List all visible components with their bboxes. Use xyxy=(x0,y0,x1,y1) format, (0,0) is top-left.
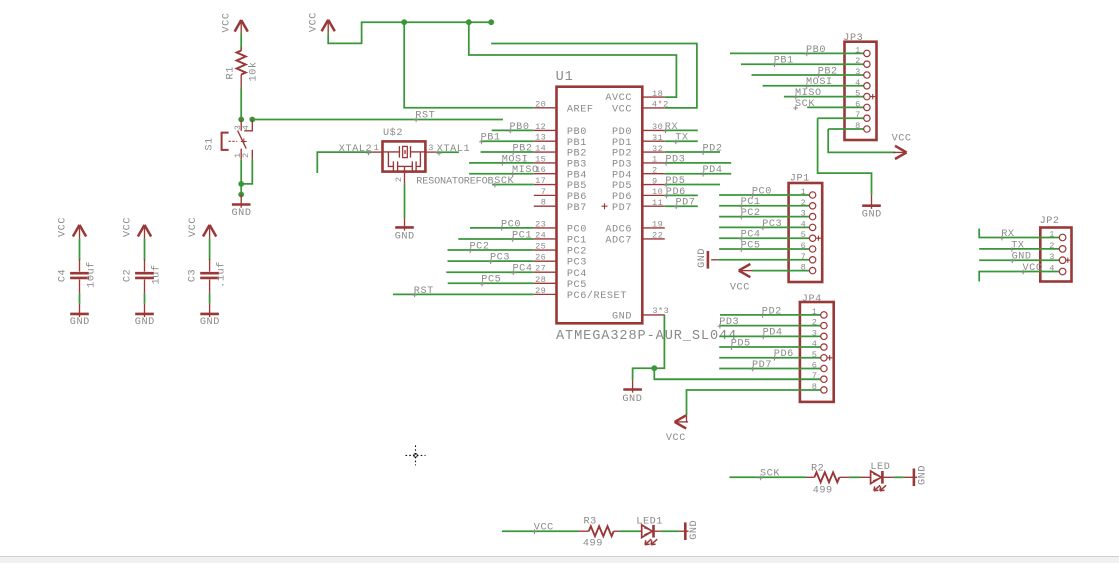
svg-text:GND: GND xyxy=(395,231,415,242)
svg-text:10uf: 10uf xyxy=(85,261,97,288)
svg-text:6: 6 xyxy=(855,99,861,109)
svg-text:8: 8 xyxy=(855,121,861,131)
svg-text:1: 1 xyxy=(855,45,861,55)
svg-text:1: 1 xyxy=(374,143,380,153)
svg-text:3: 3 xyxy=(801,209,807,219)
svg-text:13: 13 xyxy=(535,133,546,143)
svg-text:R2: R2 xyxy=(811,463,824,474)
svg-text:PD3: PD3 xyxy=(612,159,632,170)
svg-text:23: 23 xyxy=(535,219,546,229)
svg-text:.1uf: .1uf xyxy=(215,261,227,288)
svg-text:15: 15 xyxy=(535,154,546,164)
svg-text:1: 1 xyxy=(652,155,658,165)
svg-text:30: 30 xyxy=(652,122,663,132)
svg-text:PC5: PC5 xyxy=(567,280,587,291)
svg-text:6: 6 xyxy=(801,241,807,251)
svg-text:U$2: U$2 xyxy=(383,127,403,139)
svg-text:PC0: PC0 xyxy=(567,225,587,236)
svg-text:16: 16 xyxy=(535,165,546,175)
svg-text:XTAL1: XTAL1 xyxy=(437,144,470,155)
svg-text:GND: GND xyxy=(622,394,642,405)
svg-text:3: 3 xyxy=(855,67,861,77)
svg-text:17: 17 xyxy=(535,176,546,186)
svg-text:PD5: PD5 xyxy=(612,181,632,192)
svg-text:31: 31 xyxy=(652,133,663,143)
svg-text:PC2: PC2 xyxy=(567,247,587,258)
svg-text:VCC: VCC xyxy=(222,13,233,33)
svg-text:19: 19 xyxy=(652,220,663,230)
svg-text:24: 24 xyxy=(535,230,546,240)
svg-text:4: 4 xyxy=(241,125,251,131)
svg-text:3*3: 3*3 xyxy=(652,306,669,316)
svg-text:4: 4 xyxy=(855,78,861,88)
svg-text:PB4: PB4 xyxy=(567,170,587,181)
svg-text:JP3: JP3 xyxy=(843,33,863,44)
svg-text:MISO: MISO xyxy=(795,88,822,99)
svg-text:PD7: PD7 xyxy=(612,203,632,214)
svg-text:5: 5 xyxy=(855,89,861,99)
svg-text:1: 1 xyxy=(801,187,807,197)
svg-text:RESONATOREFOB: RESONATOREFOB xyxy=(416,176,493,187)
svg-text:LED: LED xyxy=(870,462,890,473)
svg-text:GND: GND xyxy=(917,465,928,485)
svg-text:22: 22 xyxy=(652,231,663,241)
svg-text:8: 8 xyxy=(541,198,547,208)
svg-text:PB3: PB3 xyxy=(567,159,587,170)
svg-text:SCK: SCK xyxy=(760,469,780,480)
svg-text:VCC: VCC xyxy=(309,12,320,32)
svg-text:MOSI: MOSI xyxy=(806,77,833,88)
svg-text:VCC: VCC xyxy=(730,283,750,294)
svg-text:C2: C2 xyxy=(123,269,134,282)
svg-text:GND: GND xyxy=(70,317,90,328)
svg-text:7: 7 xyxy=(541,187,547,197)
svg-text:2: 2 xyxy=(855,56,861,66)
svg-text:VCC: VCC xyxy=(666,433,686,444)
svg-text:26: 26 xyxy=(535,253,546,263)
svg-text:GND: GND xyxy=(697,248,708,268)
svg-text:GND: GND xyxy=(689,520,700,540)
svg-text:5: 5 xyxy=(812,350,818,360)
svg-text:3: 3 xyxy=(1049,252,1055,262)
svg-text:GND: GND xyxy=(135,317,155,328)
svg-text:12: 12 xyxy=(535,122,546,132)
svg-text:499: 499 xyxy=(583,538,603,549)
svg-text:U1: U1 xyxy=(556,70,574,85)
svg-text:VCC: VCC xyxy=(58,217,69,237)
svg-text:25: 25 xyxy=(535,242,546,252)
svg-text:2: 2 xyxy=(801,198,807,208)
svg-text:GND: GND xyxy=(232,208,252,219)
svg-text:28: 28 xyxy=(535,275,546,285)
svg-text:VCC: VCC xyxy=(188,217,199,237)
svg-text:PB5: PB5 xyxy=(567,181,587,192)
svg-text:5: 5 xyxy=(801,230,807,240)
svg-text:R1: R1 xyxy=(225,66,236,79)
svg-text:18: 18 xyxy=(652,89,663,99)
svg-text:C4: C4 xyxy=(58,269,69,282)
svg-text:PD4: PD4 xyxy=(612,170,632,181)
svg-text:PD0: PD0 xyxy=(612,127,632,138)
svg-text:PD6: PD6 xyxy=(612,192,632,203)
svg-text:ADC6: ADC6 xyxy=(605,225,632,236)
svg-text:GND: GND xyxy=(200,317,220,328)
svg-text:MOSI: MOSI xyxy=(502,154,529,165)
svg-text:LED1: LED1 xyxy=(636,517,663,528)
svg-text:6: 6 xyxy=(812,361,818,371)
svg-text:PB7: PB7 xyxy=(567,203,587,214)
svg-text:499: 499 xyxy=(813,485,833,496)
svg-text:VCC: VCC xyxy=(892,134,912,145)
svg-text:27: 27 xyxy=(535,264,546,274)
svg-text:9: 9 xyxy=(652,176,658,186)
svg-text:C3: C3 xyxy=(188,269,199,282)
svg-text:10k: 10k xyxy=(248,62,260,82)
svg-text:4: 4 xyxy=(801,219,807,229)
svg-text:ATMEGA328P-AUR_SL044: ATMEGA328P-AUR_SL044 xyxy=(556,329,737,344)
svg-text:AREF: AREF xyxy=(567,104,594,115)
svg-text:PB0: PB0 xyxy=(567,127,587,138)
svg-text:29: 29 xyxy=(535,286,546,296)
svg-text:SCK: SCK xyxy=(494,176,514,187)
svg-text:GND: GND xyxy=(612,312,632,323)
svg-text:4: 4 xyxy=(1049,264,1055,274)
svg-text:32: 32 xyxy=(652,144,663,154)
svg-text:1uf: 1uf xyxy=(150,265,162,285)
svg-text:GND: GND xyxy=(862,209,882,220)
svg-text:VCC: VCC xyxy=(123,217,134,237)
svg-text:AVCC: AVCC xyxy=(605,93,632,104)
svg-text:VCC: VCC xyxy=(612,104,632,115)
svg-text:3: 3 xyxy=(812,328,818,338)
svg-text:2: 2 xyxy=(652,165,658,175)
svg-text:2: 2 xyxy=(812,318,818,328)
svg-text:PB2: PB2 xyxy=(567,149,587,160)
svg-text:PB6: PB6 xyxy=(567,192,587,203)
svg-text:PC3: PC3 xyxy=(567,258,587,269)
svg-text:11: 11 xyxy=(652,198,663,208)
svg-text:2: 2 xyxy=(1049,241,1055,251)
svg-text:20: 20 xyxy=(535,99,546,109)
svg-text:14: 14 xyxy=(535,144,546,154)
svg-text:ADC7: ADC7 xyxy=(605,236,632,247)
svg-text:4: 4 xyxy=(812,339,818,349)
svg-text:JP2: JP2 xyxy=(1040,216,1060,227)
svg-text:1: 1 xyxy=(1049,230,1055,240)
svg-text:PC1: PC1 xyxy=(567,236,587,247)
svg-text:PD1: PD1 xyxy=(612,138,632,149)
svg-text:JP4: JP4 xyxy=(802,294,822,305)
svg-text:4*2: 4*2 xyxy=(652,100,669,110)
svg-text:7: 7 xyxy=(855,110,861,120)
svg-text:SCK: SCK xyxy=(795,99,815,110)
svg-text:PC6/RESET: PC6/RESET xyxy=(567,290,627,302)
svg-text:10: 10 xyxy=(652,187,663,197)
svg-text:JP1: JP1 xyxy=(790,174,810,185)
svg-text:PD2: PD2 xyxy=(612,149,632,160)
svg-text:R3: R3 xyxy=(584,517,597,528)
svg-text:PC4: PC4 xyxy=(567,269,587,280)
svg-text:PB1: PB1 xyxy=(567,138,587,149)
svg-text:S1: S1 xyxy=(205,137,216,150)
svg-text:2: 2 xyxy=(394,176,404,182)
svg-text:2: 2 xyxy=(241,152,251,158)
svg-text:3: 3 xyxy=(428,143,434,153)
svg-text:1: 1 xyxy=(812,307,818,317)
